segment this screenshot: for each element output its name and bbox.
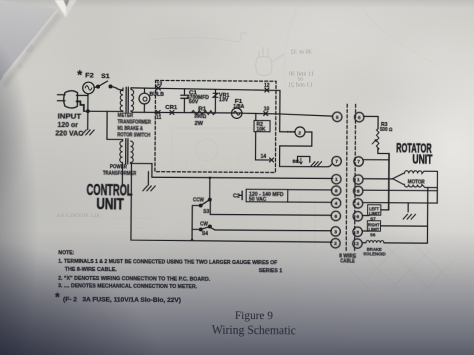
resistor R2 stub [255, 114, 257, 121]
capacitor C2 plate [241, 191, 243, 199]
pc board ground stub [143, 172, 156, 191]
wire row8 [288, 189, 332, 191]
schematic text labels [54, 67, 434, 266]
node riser-row1 [209, 177, 212, 180]
wire plug upper lead to fuse [76, 94, 88, 96]
label LEFT LIMIT S7 [369, 206, 380, 221]
wire row4 [288, 201, 332, 203]
wire 12 corner down to meter [280, 90, 296, 131]
label 8 wire cable [339, 254, 357, 265]
terminal 12 X [265, 88, 269, 92]
wire motor right leg [436, 188, 438, 203]
resistor R2 box [254, 120, 270, 131]
cable dashed lines [346, 104, 355, 252]
terminal 10 X [264, 112, 268, 116]
fold wedge top-left [0, 0, 80, 90]
left side soft shadow [0, 0, 140, 355]
terminal 11 X [156, 110, 160, 114]
bottom shadow gradient [0, 230, 474, 355]
dog-ear fold [55, 0, 77, 18]
bleed mirrored text [56, 49, 314, 220]
terminal 13 X [156, 86, 160, 90]
label BRAKE SOLENOID [363, 247, 386, 258]
switch S3 [199, 198, 211, 207]
label C1 [187, 90, 209, 105]
right limit switch S6 [363, 221, 428, 232]
wire S4 out to row3 [210, 227, 332, 230]
wire row8 right [363, 189, 437, 192]
label R1 [194, 106, 206, 127]
terminal strip circles left [331, 112, 342, 248]
wire secondary to bottom rail [131, 163, 333, 242]
transformer T2 (power transformer) [120, 139, 134, 186]
fuse F1 [231, 108, 241, 118]
bleed box edges [241, 33, 247, 41]
label VR1 [219, 93, 230, 104]
wire rail F1 to terminal 5 [242, 113, 332, 116]
wire fuse bottom lead [87, 94, 89, 111]
switch S4 [192, 225, 211, 231]
caption [212, 310, 296, 338]
switch S1 [94, 81, 112, 88]
brake contact BK [297, 156, 309, 164]
label INPUT [55, 111, 83, 137]
left limit switch S7 [363, 205, 389, 216]
wire row4 right [363, 202, 437, 205]
capacitor C1 [181, 89, 188, 113]
bottom-left corner shadow [0, 230, 260, 355]
rheostat R3 [376, 129, 379, 150]
pc board dashed outline [155, 80, 276, 172]
wire plug lower lead (cord) [76, 101, 84, 111]
label CONTROL UNIT [86, 182, 132, 214]
wiper arrow [372, 140, 376, 144]
wire power primary feed [107, 111, 123, 141]
label R2 [256, 122, 266, 133]
wire R2 to 14 [256, 132, 270, 160]
pc board terminal numbers [156, 81, 270, 160]
transformer T1 (meter transformer) [120, 87, 134, 112]
wire row1 to motor tip [363, 178, 392, 180]
zener VR1 [213, 90, 218, 113]
ground [82, 111, 95, 135]
terminal strip circles right [353, 112, 364, 248]
terminal 14 X [270, 158, 274, 162]
brake solenoid coil [363, 240, 428, 243]
wire riser to row1 [152, 164, 333, 179]
meter M circle [295, 127, 305, 137]
diode CR1 X [170, 111, 174, 115]
label meter transformer [117, 113, 151, 139]
ground at BK [311, 162, 322, 166]
resistor R1 [191, 110, 215, 114]
terminal circles [331, 112, 364, 248]
switch S3 riser [209, 178, 211, 200]
bleed plug shape [256, 47, 284, 76]
node riser-bottom [191, 239, 194, 242]
wire middle rail left [132, 111, 242, 114]
capacitor C2 lead [239, 194, 242, 196]
wire top rail [131, 88, 280, 91]
wire neutral rail [84, 110, 123, 112]
wire row5 right [363, 116, 378, 128]
notes block [55, 250, 283, 305]
motor [393, 171, 438, 188]
wire riser left elbow [192, 205, 201, 240]
ground rotator [403, 203, 416, 219]
label F1 [233, 99, 244, 110]
top edge soft strip [0, 0, 474, 8]
fuse F2 [83, 82, 95, 94]
bulb DS1 [139, 88, 150, 112]
label ROTATOR UNIT [396, 140, 433, 166]
wire R3 bottom to row7 [363, 148, 389, 159]
wire S1 to transformer primary [110, 86, 123, 90]
mechanical dots [288, 131, 294, 133]
terminal digits left [334, 115, 339, 247]
wire meter loop [280, 132, 332, 167]
label R3 [380, 122, 393, 133]
plug P1 [57, 91, 77, 108]
wire secondary bottom bar [131, 162, 151, 164]
label RIGHT LIMIT S6 [368, 222, 380, 237]
capacitor C2 box [246, 189, 288, 202]
terminal digits right [356, 115, 361, 247]
wire motor bottom leg [426, 188, 428, 244]
wire S3 out to row6 [210, 200, 331, 215]
node junction [87, 110, 90, 113]
label power transformer [103, 164, 137, 177]
